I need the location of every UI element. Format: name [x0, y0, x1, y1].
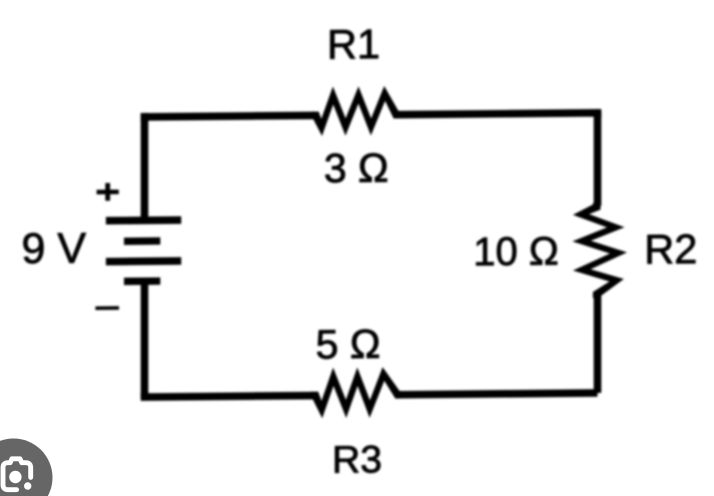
minus sign — [95, 306, 119, 310]
wire R3 to bottom-left corner — [145, 392, 315, 398]
battery plate long top (+) — [106, 216, 181, 224]
plus sign — [97, 183, 119, 201]
battery plate short — [124, 237, 160, 245]
resistor R2 zigzag body — [572, 203, 627, 298]
wire right side bottom — [594, 295, 602, 393]
battery B1 — [106, 220, 181, 281]
wire right side top — [594, 112, 602, 206]
wire R1 to top-right corner — [397, 113, 598, 119]
wire left side bottom (battery - to corner) — [141, 281, 149, 398]
wire top-left corner to R1 — [145, 115, 316, 121]
wire left side top (corner to battery +) — [141, 113, 149, 220]
resistor R3 zigzag body — [311, 367, 402, 418]
google lens camera icon — [0, 439, 53, 496]
battery plate long — [106, 257, 181, 265]
resistor R1 zigzag body — [312, 86, 400, 136]
wire bottom-right corner to R3 — [399, 393, 598, 395]
battery plate short bottom (-) — [124, 277, 160, 285]
